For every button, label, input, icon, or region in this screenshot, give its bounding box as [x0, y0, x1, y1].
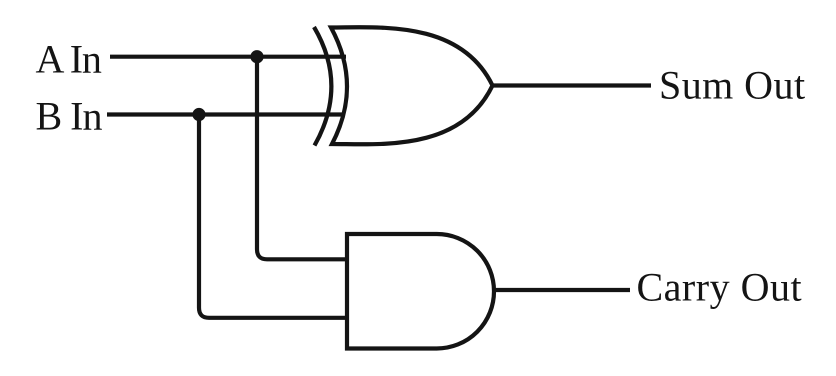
- xor-gate U1 input arc: [314, 27, 331, 146]
- wire B input horizontal: [107, 112, 344, 116]
- svg-text:B In: B In: [36, 94, 103, 139]
- wire Sum output: [493, 83, 652, 87]
- wire B branch to AND bottom input: [199, 115, 348, 318]
- svg-text:Carry Out: Carry Out: [637, 264, 803, 309]
- junction dot A: [250, 50, 263, 63]
- xor-gate U1 body: [331, 27, 493, 144]
- junction dot B: [192, 108, 205, 121]
- wire A input horizontal: [110, 55, 346, 59]
- svg-text:Sum Out: Sum Out: [659, 63, 806, 108]
- and-gate U2 body: [347, 234, 494, 349]
- wire Carry output: [494, 288, 630, 292]
- wire A branch to AND top input: [257, 57, 348, 260]
- svg-text:A In: A In: [36, 36, 102, 81]
